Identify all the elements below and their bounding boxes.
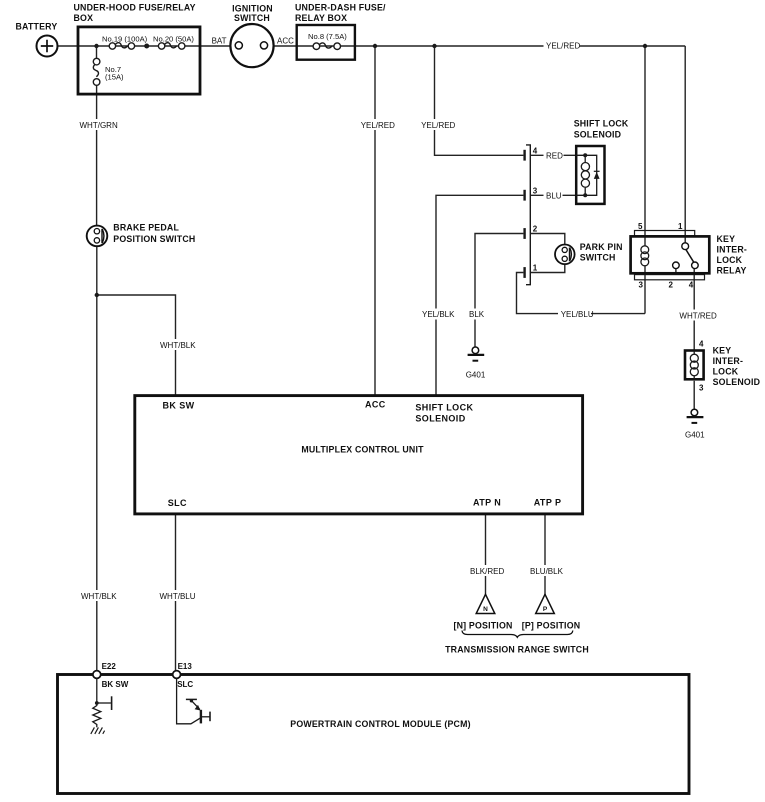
svg-text:(15A): (15A) bbox=[105, 73, 124, 82]
wire WHT/GRN fuse No.7 to brake pedal position switch bbox=[96, 86, 98, 226]
PCM internal BK SW circuit bbox=[93, 678, 112, 727]
svg-text:4: 4 bbox=[533, 146, 538, 155]
powertrain control module (PCM) bbox=[58, 675, 690, 794]
svg-text:YEL/BLU: YEL/BLU bbox=[561, 310, 594, 319]
label BLK/RED bbox=[468, 565, 505, 576]
svg-text:[N] POSITION: [N] POSITION bbox=[453, 621, 512, 631]
wire main feed drop to key interlock relay pin 1 bbox=[684, 46, 686, 236]
svg-text:WHT/BLK: WHT/BLK bbox=[160, 341, 196, 350]
svg-text:WHT/BLU: WHT/BLU bbox=[160, 592, 196, 601]
label WHT/RED bbox=[677, 310, 717, 321]
svg-text:ATP N: ATP N bbox=[473, 498, 501, 508]
label YEL/RED on ACC drop bbox=[359, 119, 396, 130]
junction dot ACC feed at x=434.5 bbox=[432, 44, 436, 48]
svg-text:BLU: BLU bbox=[546, 192, 562, 201]
fuse No.8 (7.5A) bbox=[308, 32, 347, 50]
svg-text:KEY: KEY bbox=[713, 346, 732, 356]
collector diagonal bbox=[191, 701, 199, 710]
svg-text:3: 3 bbox=[699, 384, 704, 393]
wire relay pin 3 drop bbox=[644, 266, 646, 314]
label BLU/BLK bbox=[528, 565, 564, 576]
svg-text:UNDER-HOOD FUSE/RELAY: UNDER-HOOD FUSE/RELAY bbox=[74, 3, 196, 13]
svg-text:2: 2 bbox=[669, 281, 674, 290]
svg-text:SOLENOID: SOLENOID bbox=[574, 129, 622, 139]
wire BLK connector pin 2 to ground G401 bbox=[475, 234, 523, 348]
junction dot between fuses No.19 and No.20 bbox=[144, 44, 149, 49]
label YEL/BLK bbox=[420, 309, 455, 320]
svg-text:SHIFT LOCK: SHIFT LOCK bbox=[574, 118, 629, 128]
svg-text:YEL/RED: YEL/RED bbox=[546, 42, 580, 51]
under-hood fuse/relay box bbox=[74, 3, 201, 95]
wire junction drop to key interlock relay pin 5 bbox=[644, 46, 646, 236]
relay contact pin 4 bbox=[692, 262, 699, 269]
PCM internal SLC transistor bbox=[177, 678, 210, 723]
wire multiplex SLC to PCM E13 (WHT/BLU) bbox=[175, 514, 177, 671]
chassis ground (PCM BK SW) bbox=[91, 727, 105, 734]
relay coil bbox=[641, 246, 649, 254]
svg-text:4: 4 bbox=[689, 281, 694, 290]
relay blade bbox=[686, 249, 694, 262]
junction dot BK SW internal bbox=[95, 701, 99, 705]
wire YEL/RED drop to multiplex ACC pin bbox=[374, 46, 376, 395]
svg-text:TRANSMISSION RANGE SWITCH: TRANSMISSION RANGE SWITCH bbox=[445, 644, 589, 654]
svg-text:BATTERY: BATTERY bbox=[16, 22, 58, 32]
shift lock solenoid bbox=[574, 118, 629, 203]
label BLK bbox=[467, 309, 485, 320]
wire park pin switch bottom to connector pin 1 bbox=[530, 264, 565, 273]
svg-text:LOCK: LOCK bbox=[713, 367, 739, 377]
junction dot ACC feed at x=375 bbox=[373, 44, 377, 48]
label WHT/BLK (to E22) bbox=[79, 590, 118, 601]
brake pedal position switch bbox=[87, 223, 196, 247]
brace transmission range switch bbox=[462, 631, 573, 638]
connector pin 3 terminal bbox=[523, 190, 525, 201]
WIRES_START bbox=[58, 46, 695, 671]
svg-text:BOX: BOX bbox=[74, 13, 94, 23]
svg-text:E22: E22 bbox=[102, 662, 117, 671]
svg-text:YEL/RED: YEL/RED bbox=[421, 121, 455, 130]
svg-text:MULTIPLEX CONTROL UNIT: MULTIPLEX CONTROL UNIT bbox=[301, 445, 424, 455]
wire relay pin 1 inside box to contact bbox=[684, 236, 686, 243]
label BLU bbox=[544, 189, 563, 200]
svg-text:2: 2 bbox=[533, 225, 538, 234]
wire relay pin 2 stub bbox=[675, 269, 677, 275]
wire YEL/BLU connector pin 1 to relay pin 3 bbox=[517, 273, 646, 314]
connector pin 4 terminal bbox=[523, 150, 525, 161]
wire connector pin 2 to park pin switch top bbox=[530, 234, 565, 245]
svg-text:WHT/GRN: WHT/GRN bbox=[80, 121, 118, 130]
svg-text:PARK PIN: PARK PIN bbox=[580, 242, 623, 252]
svg-text:G401: G401 bbox=[685, 430, 705, 439]
collector arrow bbox=[195, 705, 201, 711]
wire multiplex ATP P to [P] position triangle (BLU/BLK) bbox=[544, 514, 546, 595]
svg-text:ATP P: ATP P bbox=[534, 498, 562, 508]
battery bbox=[16, 22, 58, 57]
[P] position triangle bbox=[522, 594, 581, 630]
wire connector pin 4 to shift lock solenoid RED bbox=[530, 154, 577, 156]
relay contact pin 2 bbox=[673, 262, 680, 269]
svg-text:RED: RED bbox=[546, 152, 563, 161]
svg-text:UNDER-DASH FUSE/: UNDER-DASH FUSE/ bbox=[295, 3, 386, 13]
ground G401 (key interlock solenoid) bbox=[685, 409, 705, 439]
under-dash fuse/relay box bbox=[295, 3, 386, 60]
svg-text:YEL/BLK: YEL/BLK bbox=[422, 310, 455, 319]
wire YEL/BLK connector pin 3 to multiplex SHIFT LOCK SOLENOID pin bbox=[436, 195, 523, 395]
svg-text:POWERTRAIN CONTROL MODULE (PCM: POWERTRAIN CONTROL MODULE (PCM) bbox=[290, 719, 471, 729]
wire branch WHT/BLK to multiplex BK SW pin bbox=[97, 295, 176, 395]
svg-text:No.19 (100A): No.19 (100A) bbox=[102, 35, 148, 44]
svg-text:BLU/BLK: BLU/BLK bbox=[530, 567, 564, 576]
svg-text:1: 1 bbox=[533, 264, 538, 273]
connector pin 1 terminal bbox=[523, 267, 525, 278]
wire key interlock solenoid pin 3 to ground G401 bbox=[693, 381, 695, 410]
connector C (4-pin) bracket bbox=[526, 145, 530, 285]
svg-text:3: 3 bbox=[639, 281, 644, 290]
emitter line bbox=[202, 716, 210, 718]
terminal E13 bbox=[173, 662, 194, 689]
fuse No.20 (50A) bbox=[153, 35, 194, 50]
wire relay pin 4 to key interlock solenoid pin 4 (WHT/RED) bbox=[693, 269, 695, 350]
svg-text:INTER-: INTER- bbox=[717, 245, 748, 255]
svg-text:SWITCH: SWITCH bbox=[580, 253, 616, 263]
terminal E22 bbox=[93, 662, 129, 689]
svg-text:E13: E13 bbox=[178, 662, 193, 671]
svg-text:[P] POSITION: [P] POSITION bbox=[522, 621, 581, 631]
svg-text:SHIFT LOCK: SHIFT LOCK bbox=[415, 403, 473, 413]
svg-text:LOCK: LOCK bbox=[717, 255, 743, 265]
transistor base bar bbox=[200, 710, 202, 724]
svg-text:SOLENOID: SOLENOID bbox=[415, 413, 465, 423]
label YEL/BLU bbox=[558, 309, 594, 320]
junction dot ACC feed at relay pin 5 drop bbox=[643, 44, 647, 48]
svg-text:4: 4 bbox=[699, 339, 704, 348]
label YEL/RED on main feed bbox=[544, 40, 581, 51]
junction dot brake switch branch bbox=[95, 293, 99, 297]
fuse No.19 (100A) bbox=[102, 35, 148, 50]
svg-text:SLC: SLC bbox=[168, 498, 187, 508]
svg-text:ACC: ACC bbox=[277, 37, 294, 46]
svg-text:No.8 (7.5A): No.8 (7.5A) bbox=[308, 32, 347, 41]
svg-text:BK SW: BK SW bbox=[163, 401, 195, 411]
svg-text:3: 3 bbox=[533, 186, 538, 195]
wire battery feed down through fuse No.7 bbox=[96, 46, 98, 58]
fuse No.7 (15A) bbox=[93, 58, 124, 85]
junction dot battery feed bbox=[94, 44, 98, 48]
svg-text:5: 5 bbox=[638, 222, 643, 231]
svg-text:N: N bbox=[483, 606, 488, 613]
coil of shift lock solenoid bbox=[581, 163, 589, 171]
svg-text:BLK/RED: BLK/RED bbox=[470, 567, 504, 576]
key interlock solenoid bbox=[685, 339, 760, 392]
node dot bottom bbox=[583, 193, 587, 197]
svg-text:ACC: ACC bbox=[365, 400, 386, 410]
label WHT/BLU (to E13) bbox=[157, 590, 196, 601]
svg-text:SOLENOID: SOLENOID bbox=[713, 377, 761, 387]
wire brake switch to PCM E22 (WHT/BLK) bbox=[96, 246, 98, 670]
label YEL/RED on pin 4 drop bbox=[419, 119, 456, 130]
ignition switch bbox=[230, 4, 273, 68]
resistor bbox=[93, 703, 101, 727]
svg-text:BAT: BAT bbox=[212, 37, 227, 46]
wire YEL/RED drop to connector pin 4 bbox=[435, 46, 524, 155]
collector top bar bbox=[186, 698, 197, 700]
wire relay pin 5 inside box to coil bbox=[644, 236, 646, 246]
collector junction dot bbox=[190, 699, 193, 702]
node dot top bbox=[583, 153, 587, 157]
emitter T-bar bbox=[209, 712, 211, 722]
svg-text:SLC: SLC bbox=[177, 680, 193, 689]
relay contact pin 1 bbox=[682, 243, 689, 250]
svg-text:KEY: KEY bbox=[717, 234, 736, 244]
wire connector pin 3 to shift lock solenoid BLU bbox=[530, 194, 577, 196]
svg-text:POSITION SWITCH: POSITION SWITCH bbox=[113, 234, 195, 244]
svg-text:WHT/RED: WHT/RED bbox=[679, 311, 717, 320]
label WHT/GRN bbox=[78, 119, 118, 130]
[N] position triangle bbox=[453, 594, 512, 630]
svg-text:WHT/BLK: WHT/BLK bbox=[81, 592, 117, 601]
svg-text:BLK: BLK bbox=[469, 310, 485, 319]
svg-text:YEL/RED: YEL/RED bbox=[361, 121, 395, 130]
key interlock relay bbox=[631, 222, 747, 290]
wire ignition ACC terminal to relay pin 1 corner (main ACC feed) bbox=[268, 45, 686, 47]
svg-text:BK SW: BK SW bbox=[102, 680, 129, 689]
svg-text:INTER-: INTER- bbox=[713, 356, 744, 366]
svg-text:SWITCH: SWITCH bbox=[234, 13, 270, 23]
label WHT/BLK on multiplex BK SW drop bbox=[158, 339, 197, 350]
svg-text:G401: G401 bbox=[466, 370, 486, 379]
ground G401 (BLK wire) bbox=[466, 347, 486, 379]
connector pin 2 terminal bbox=[523, 228, 525, 239]
svg-text:P: P bbox=[543, 606, 548, 613]
svg-text:RELAY: RELAY bbox=[717, 266, 747, 276]
svg-text:1: 1 bbox=[678, 222, 683, 231]
svg-text:IGNITION: IGNITION bbox=[232, 4, 273, 14]
stub T-bar bbox=[111, 696, 113, 710]
coil of key interlock solenoid bbox=[690, 354, 698, 362]
diode of shift lock solenoid bbox=[594, 172, 600, 179]
svg-text:No.20 (50A): No.20 (50A) bbox=[153, 35, 194, 44]
label RED bbox=[544, 149, 564, 160]
wire battery to ignition switch BAT terminal (y=46 main feed) bbox=[58, 45, 236, 47]
svg-text:RELAY BOX: RELAY BOX bbox=[295, 13, 347, 23]
park pin switch bbox=[555, 242, 623, 264]
svg-text:BRAKE PEDAL: BRAKE PEDAL bbox=[113, 223, 179, 233]
wire multiplex ATP N to [N] position triangle (BLK/RED) bbox=[485, 514, 487, 595]
multiplex control unit bbox=[135, 396, 583, 514]
